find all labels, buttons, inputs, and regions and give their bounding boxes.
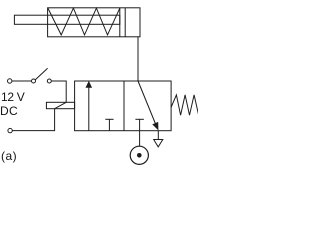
solenoid coil — [46, 102, 74, 108]
blocked port T (right box) — [135, 119, 144, 130]
valve V1 box divider — [123, 81, 125, 131]
wire — [12, 80, 32, 82]
piston — [120, 8, 125, 37]
label (a) — [1, 150, 17, 162]
label DC — [0, 105, 18, 117]
wire: return to solenoid — [12, 109, 54, 131]
exhaust port triangle — [154, 140, 163, 147]
cylinder body (single-acting cylinder) — [48, 8, 140, 37]
switch S1 contact left — [32, 79, 36, 83]
wire: switch to solenoid — [51, 81, 66, 102]
wire: pipe cylinder to valve — [137, 37, 139, 81]
wire: exhaust stem — [157, 131, 159, 140]
switch S1 contact right — [47, 79, 51, 83]
piston rod — [14, 15, 119, 24]
switch S1 blade — [35, 68, 47, 79]
terminal node (-) — [8, 128, 12, 132]
flow arrow (left box, pass) — [86, 81, 93, 131]
wire: valve to pressure source — [139, 131, 141, 147]
cylinder return spring — [48, 8, 120, 35]
flow arrow (right box, exhaust path) — [138, 81, 158, 130]
terminal node (+) — [8, 79, 12, 83]
pressure source P — [130, 146, 148, 164]
valve V1 body (3/2-way) — [75, 81, 172, 131]
label 12 V — [1, 91, 25, 103]
valve return spring — [171, 95, 198, 115]
blocked port T (left box) — [105, 119, 113, 130]
